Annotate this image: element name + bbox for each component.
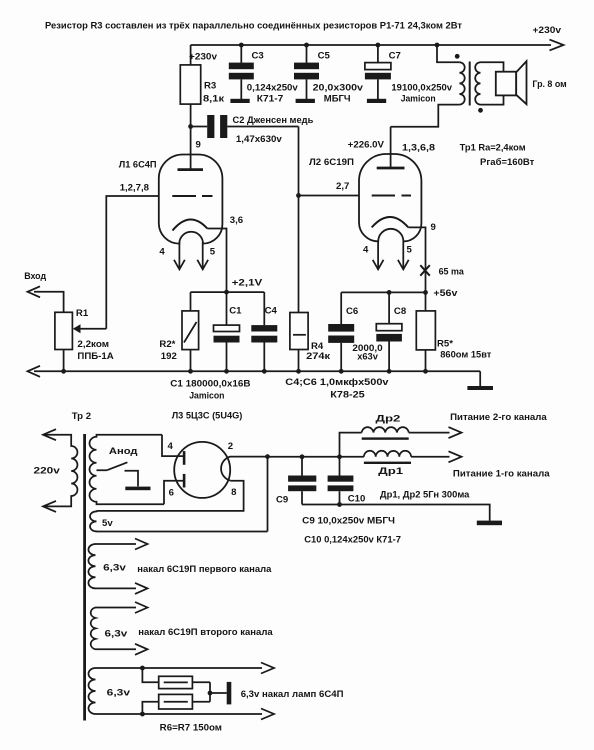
svg-text:1,3,6,8: 1,3,6,8 [402,143,436,154]
transformer Tp2 5v winding [90,511,268,532]
wire L1 cathode lead to +2,1V node [207,229,226,293]
svg-text:5: 5 [210,246,216,257]
svg-text:+230v: +230v [189,52,218,63]
transformer Tp1 primary top lead [437,45,459,62]
wire L2 cathode lead [408,227,425,311]
wire +56v rail [341,291,425,293]
meter point X 65ma [420,265,430,276]
tube Л2 cathode [372,217,409,227]
svg-text:C1 180000,0x16В: C1 180000,0x16В [170,379,250,390]
node junction dot rail-C5 [304,43,309,48]
wire L2 anode riser [390,127,392,168]
svg-text:2: 2 [228,441,233,452]
node Tp1 secondary phasing dot [478,108,483,113]
node junction dot bus-C4 [262,369,267,374]
svg-text:8: 8 [231,487,237,498]
tube Л1 heater pin 5 arrow [202,242,204,269]
wire Л3 pin 8 to 5v winding [97,481,244,511]
svg-text:9: 9 [196,140,201,151]
svg-text:Jamicon: Jamicon [401,94,436,105]
transformer Tp2 core [83,434,86,721]
svg-text:Др1: Др1 [378,466,404,477]
tube Л1 cathode [173,219,208,230]
capacitor C6 [340,292,342,324]
speaker Гр horn [516,61,526,104]
svg-text:6,3v: 6,3v [103,563,126,574]
inductor Др2 [362,427,409,432]
wire R1 bottom [63,350,65,372]
transformer Tp1 core [469,62,471,106]
ground chassis bar bottom right [477,521,502,526]
node junction dot rail-Tp1 [435,43,440,48]
svg-text:6,3v: 6,3v [107,688,131,699]
svg-text:2,2ком: 2,2ком [77,339,109,350]
capacitor C10 [339,457,341,476]
svg-text:4: 4 [159,246,165,257]
svg-text:1,47x630v: 1,47x630v [236,134,283,145]
wire 220v bottom arrow [43,501,56,512]
node junction dot bus-R5 [423,369,428,374]
node junction dot C8 top [387,290,392,295]
capacitor C3 [240,45,242,63]
node junction dot C10 bottom [337,502,342,507]
svg-text:Гр. 8 ом: Гр. 8 ом [532,79,566,90]
svg-text:0,124x250v: 0,124x250v [247,83,299,94]
node junction dot R7 tap [140,712,145,717]
resistor R1 potentiometer [55,312,73,349]
wire +230v top rail [191,44,551,46]
wire R3 top riser [190,45,192,65]
wire anode winding bottom lead to pin 6 [164,481,183,505]
switch on HV center tap [97,462,128,470]
svg-text:С4;С6 1,0мкфх500v: С4;С6 1,0мкфх500v [285,377,389,388]
wire bus to chassis ground [479,371,481,386]
capacitor C7 (electrolytic) [377,45,379,63]
node junction dot bus-C1 [224,369,229,374]
svg-text:Питание 1-го канала: Питание 1-го канала [453,469,550,480]
tube Л3 envelope [174,442,230,498]
svg-text:накал 6С19П второго канала: накал 6С19П второго канала [138,627,273,638]
svg-text:МБГЧ: МБГЧ [324,94,351,105]
wire Tp1 secondary bottom lead [481,95,504,104]
transformer Tp1 secondary winding [475,62,480,104]
node junction dot bus-R4 [296,369,301,374]
tube Л1 grid (dashed) [172,195,212,197]
wire Л3 pin 2 lead [230,456,268,458]
wire tap fixed contact [125,471,139,487]
svg-text:R2*: R2* [159,339,175,350]
tube Л2 heater pin 4 arrow [377,241,379,269]
wire B+ rail to chokes [268,456,450,458]
node junction dot bus-R2 [188,369,193,374]
svg-text:274к: 274к [306,351,330,362]
transformer Tp2 heater winding 1 (6,3v) [88,544,136,588]
svg-text:C3: C3 [252,51,264,62]
svg-text:C9: C9 [276,495,288,506]
svg-text:Ргаб=160Вт: Ргаб=160Вт [480,157,535,168]
wire C2 to L2 grid and R4 [298,127,300,313]
svg-text:Резистор R3 составлен из трёх: Резистор R3 составлен из трёх параллельн… [45,21,462,32]
tube Л1 envelope [159,155,223,244]
wire 220v top arrow [43,429,56,440]
svg-text:Др2: Др2 [376,414,401,425]
node junction dot rail-C3 [239,43,244,48]
wire C9/C10 bottom bus to ground [302,505,490,521]
svg-text:4: 4 [168,441,174,452]
svg-text:R5*: R5* [437,339,453,350]
resistor R2 [190,292,192,311]
svg-text:R1: R1 [76,308,89,319]
capacitor C8 (electrolytic) [388,292,390,323]
svg-text:+56v: +56v [433,288,458,299]
svg-text:Вход: Вход [24,271,46,282]
svg-text:C10 0,124x250v К71-7: C10 0,124x250v К71-7 [304,535,401,546]
resistor R5 [416,311,435,350]
resistor R7 [142,702,158,714]
wire cathode rail +2,1V [191,291,265,293]
svg-text:К71-7: К71-7 [257,94,284,105]
transformer Tp1 primary winding [459,62,464,104]
resistor R6 [142,668,158,682]
svg-text:x63v: x63v [357,352,378,363]
svg-text:C2 Дженсен медь: C2 Дженсен медь [233,115,314,126]
node junction dot rail-C7 [376,43,381,48]
node junction dot C10/Dr2 [337,454,342,459]
wire ground bus [34,370,480,372]
svg-text:Тр 2: Тр 2 [72,411,91,422]
svg-text:192: 192 [161,351,177,362]
svg-text:R6=R7 150ом: R6=R7 150ом [160,723,222,734]
tube Л2 envelope [359,154,421,241]
svg-text:8,1к: 8,1к [203,94,224,105]
capacitor C1 (electrolytic) [226,292,228,325]
node Tp1 primary phasing dot [455,54,460,59]
ground chassis bar right [467,386,493,390]
svg-text:+2,1V: +2,1V [232,278,263,289]
capacitor C4 [263,292,265,325]
node junction dot R6 tap [140,666,145,671]
svg-text:Jamicon: Jamicon [189,391,224,402]
node junction dot B+ [265,454,270,459]
wire R1 wiper arrow [80,328,106,330]
svg-text:+230v: +230v [533,25,562,36]
wire input lead [34,292,64,313]
svg-text:накал 6С19П первого канала: накал 6С19П первого канала [137,564,272,575]
tube Л1 heater pin 4 arrow [178,242,180,269]
transformer Tp2 heater winding 2 (6,3v) [91,608,136,650]
svg-text:C8: C8 [394,306,407,317]
wire Tp1 primary bottom lead to L2 anode [391,105,460,127]
tube Л3 plate pin 4 [183,451,186,465]
svg-text:R3: R3 [204,81,216,92]
ground chassis bar at tap [125,487,150,491]
resistor R3 [180,65,200,104]
tube Л3 filament arc [221,457,231,481]
svg-text:C9 10,0x250v МБГЧ: C9 10,0x250v МБГЧ [302,516,395,527]
svg-text:Тр1 Ra=2,4ком: Тр1 Ra=2,4ком [460,143,526,154]
transformer Tp2 220v primary winding [44,435,77,507]
tube Л3 plate pin 6 [183,474,186,488]
node junction dot cathode rail [224,290,229,295]
ground chassis bar under C3 [230,99,249,103]
svg-text:Питание 2-го канала: Питание 2-го канала [450,412,547,423]
svg-text:2,7: 2,7 [336,181,349,192]
wire Tp1 secondary top lead [481,62,504,71]
svg-text:9: 9 [431,222,436,233]
svg-text:1,2,7,8: 1,2,7,8 [120,183,150,194]
svg-text:Л1 6С4П: Л1 6С4П [119,160,157,171]
wire anode winding top lead to pin 4 [162,435,183,456]
node junction dot bus-R1 [61,369,66,374]
svg-text:Др1, Др2 5Гн 300ма: Др1, Др2 5Гн 300ма [380,490,470,501]
wire 5v bottom lead riser to B+ node [267,457,269,532]
ground chassis bar under C5 [296,99,315,103]
svg-text:К78-25: К78-25 [330,390,365,401]
node junction dot R3/C2/anode [188,124,193,129]
capacitor C2 [191,126,208,128]
svg-text:6: 6 [169,488,174,499]
speaker Гр driver box [496,72,516,96]
node +56v junction dot [423,290,428,295]
wire L1 grid lead [106,196,159,329]
tube Л2 anode plate [377,167,405,170]
svg-text:C6: C6 [346,306,358,317]
svg-text:Л3 5Ц3С (5U4G): Л3 5Ц3С (5U4G) [172,411,243,422]
svg-text:860ом 15вт: 860ом 15вт [440,350,491,361]
svg-text:6,3v накал ламп 6С4П: 6,3v накал ламп 6С4П [241,689,344,700]
svg-text:3,6: 3,6 [230,215,243,226]
transformer Tp2 heater winding 3 (6,3v) [89,668,263,714]
svg-text:Анод: Анод [109,446,138,457]
capacitor C9 [301,457,303,476]
tube Л2 grid (dashed) [372,195,411,197]
svg-text:C5: C5 [318,51,331,62]
svg-text:+226.0V: +226.0V [348,140,385,151]
svg-text:C7: C7 [389,51,401,62]
svg-text:65 ma: 65 ma [439,267,465,278]
svg-text:20,0x300v: 20,0x300v [313,83,364,94]
svg-text:C4: C4 [265,306,278,317]
svg-text:5: 5 [407,244,413,255]
wire L2 grid lead [299,195,360,197]
svg-text:5v: 5v [102,518,113,529]
svg-text:6,3v: 6,3v [105,629,129,640]
svg-text:ППБ-1А: ППБ-1А [77,351,113,362]
wire Др2 branch [340,433,450,457]
wire R3 bottom to L1 anode [190,104,192,169]
svg-text:19100,0x250v: 19100,0x250v [391,83,452,94]
ground chassis bar under C7 [367,99,386,103]
resistor R4 [290,313,308,350]
node junction dot bus-C8 [387,369,392,374]
tube Л1 anode plate [178,168,204,171]
node junction dot bus-C6 [339,369,344,374]
capacitor C5 [306,45,308,63]
ground chassis bar R6/R7 [227,682,232,705]
svg-text:220v: 220v [34,466,61,477]
svg-text:C10: C10 [348,494,366,505]
wire R6/R7 junction [209,682,211,702]
svg-text:4: 4 [363,244,369,255]
node junction dot grid2 [296,193,301,198]
transformer Tp2 anode winding [90,435,164,505]
svg-text:Л2 6С19П: Л2 6С19П [309,157,354,168]
inductor Др1 [364,451,411,457]
node junction dot C9 [300,454,305,459]
svg-text:C1: C1 [229,306,242,317]
tube Л2 heater pin 5 arrow [402,241,404,269]
